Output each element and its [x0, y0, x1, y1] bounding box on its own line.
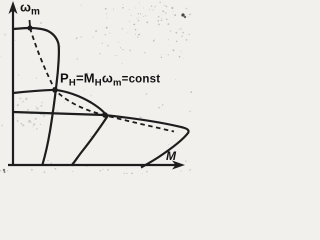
- x-axis M: [8, 164, 176, 166]
- node 3 dot (on curve2 drop / curve3 flat): [102, 112, 108, 118]
- y-axis omega_m: [12, 10, 14, 165]
- node 1 dot: [27, 25, 32, 30]
- curve 2: middle characteristic: [13, 90, 107, 166]
- scan noise speckles: [0, 2, 192, 175]
- curve 3: bottom characteristic: [13, 112, 189, 168]
- dashed constant power hyperbola: [30, 28, 174, 132]
- node 2 dot (on curve1 drop / curve2 flat): [52, 87, 58, 93]
- x-axis arrowhead: [172, 161, 185, 170]
- paper background: [0, 0, 192, 174]
- y-axis arrowhead: [9, 1, 18, 14]
- tick dash above node 1: [29, 20, 32, 26]
- curve 1: top characteristic: [13, 28, 59, 165]
